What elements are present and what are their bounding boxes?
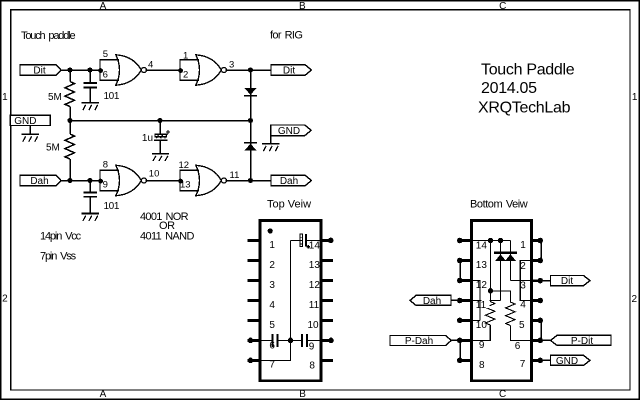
gate U1D output bubble	[221, 178, 226, 183]
pin 7 bottom view	[533, 359, 542, 362]
svg-text:C: C	[499, 389, 506, 400]
svg-text:7pin Vss: 7pin Vss	[40, 251, 77, 263]
svg-text:14pin Vcc: 14pin Vcc	[40, 231, 82, 243]
svg-text:P-Dit: P-Dit	[571, 336, 593, 347]
svg-text:101: 101	[104, 91, 120, 102]
pin 10 bottom view	[458, 319, 471, 322]
svg-text:6: 6	[269, 340, 275, 351]
capacitor C1 101 plates	[84, 82, 97, 88]
svg-text:C: C	[499, 1, 506, 12]
svg-text:2: 2	[2, 293, 8, 304]
wire top view cap to pin 9	[308, 339, 322, 341]
node pin 13 bottom view	[457, 258, 463, 264]
diode D2	[244, 142, 257, 151]
svg-text:4: 4	[148, 59, 153, 70]
svg-text:11: 11	[476, 300, 487, 311]
svg-text:8: 8	[479, 360, 485, 371]
node pin 14 bottom view	[457, 238, 463, 244]
pin 6 bottom view	[533, 339, 542, 342]
diode left bottom view	[495, 254, 506, 261]
svg-text:Top Veiw: Top Veiw	[267, 199, 311, 211]
node rail-C3 junction	[157, 118, 162, 123]
svg-text:12: 12	[179, 160, 190, 171]
gate U1A NOR body	[116, 55, 142, 85]
connector Dah bottom view	[410, 295, 451, 307]
svg-text:Touch Paddle: Touch Paddle	[481, 62, 575, 79]
capacitor C3 1u polarized plates	[154, 134, 167, 142]
svg-text:GND: GND	[556, 356, 578, 367]
wire Dah input to gate U1C	[61, 180, 100, 182]
wire bridge pins 1-2 bottom view	[540, 241, 542, 261]
wire P-Dah flag to pin 9	[451, 339, 457, 341]
pin 2 bottom view	[533, 259, 542, 262]
wire pin 2 interior stub	[527, 260, 532, 262]
wire pin 12 interior	[472, 281, 481, 321]
label plus for C3	[166, 130, 170, 134]
node U1D input junction	[178, 179, 183, 184]
wire diode left vertical	[500, 241, 502, 301]
svg-text:4011 NAND: 4011 NAND	[140, 231, 194, 243]
node Dah out diode junction	[248, 178, 253, 183]
ground below C3	[152, 153, 169, 161]
pin 3 top view	[248, 279, 260, 282]
gate U1A output bubble	[141, 68, 146, 73]
wire U1B output to Dit out	[226, 69, 271, 71]
ground below GND output	[262, 143, 279, 151]
capacitor C1 101 lower lead	[89, 88, 91, 102]
connector Dah input	[20, 175, 61, 187]
connector GND bottom view	[551, 355, 591, 367]
wire GND input stub	[29, 125, 31, 133]
pin 2 top view	[248, 259, 260, 262]
wire U1D output to Dah out	[226, 180, 271, 182]
resistor R1 5M	[65, 82, 74, 107]
svg-text:8: 8	[309, 360, 315, 371]
pin 12 bottom view	[458, 279, 471, 282]
svg-text:2: 2	[520, 261, 526, 272]
wire top view pin 7 to middle node	[259, 340, 291, 360]
svg-text:B: B	[299, 1, 306, 12]
wire left resistor to pin 9	[472, 325, 491, 340]
svg-text:1: 1	[632, 92, 638, 103]
wire U1A output to U1B	[146, 69, 180, 71]
svg-text:Dit: Dit	[283, 66, 295, 77]
pin 4 bottom view	[533, 299, 542, 302]
svg-text:4: 4	[520, 300, 526, 311]
svg-text:13: 13	[180, 180, 191, 191]
connector P-Dah bottom view	[390, 336, 451, 348]
svg-text:12: 12	[476, 280, 488, 291]
svg-text:Dah: Dah	[423, 296, 441, 307]
gate U1D NOR input box	[180, 170, 199, 190]
resistor R2 5M lower lead	[69, 159, 71, 181]
pin 10 top view	[322, 319, 333, 322]
pin number 11 bottom view	[476, 298, 490, 311]
resistor R2 5M upper lead	[69, 121, 71, 135]
pin 5 top view	[248, 319, 260, 322]
pin 14 top view	[322, 239, 333, 242]
node pin 3 bottom view	[537, 278, 543, 284]
wire Vcc to right resistor	[491, 291, 511, 302]
diode D2 wire	[250, 121, 252, 181]
pin 12 top view	[322, 279, 333, 282]
wire pin 4 interior stub	[527, 299, 532, 301]
pin 5 bottom view	[533, 319, 542, 322]
svg-text:2: 2	[269, 260, 275, 271]
node Vcc left junction	[488, 238, 493, 243]
Vcc rail wire	[70, 120, 251, 122]
node pin 9 top view	[328, 338, 334, 344]
pin 1 bottom view	[533, 239, 542, 242]
svg-text:14: 14	[476, 241, 488, 252]
wire top view vertical to middle node	[290, 241, 292, 341]
svg-text:P-Dah: P-Dah	[405, 336, 433, 347]
node pin 9 bottom view	[457, 338, 463, 344]
wire diode right vertical	[510, 241, 512, 281]
ground below GND input	[22, 133, 39, 141]
svg-text:A: A	[100, 389, 107, 400]
pin 11 top view	[322, 299, 333, 302]
svg-text:1u: 1u	[142, 133, 153, 144]
gate U1A NOR input box	[100, 60, 119, 80]
node pin 2 bottom view	[537, 258, 543, 264]
node top view middle junction	[288, 338, 294, 344]
IC U1 top view pin1 marker	[268, 228, 273, 233]
svg-text:4: 4	[269, 300, 275, 311]
label plus for 1u top view	[306, 245, 310, 249]
wire Dit input to gate U1A	[61, 69, 100, 71]
svg-text:8: 8	[103, 160, 108, 171]
wire bridge pins 5-6 bottom view	[540, 320, 542, 340]
wire GND output stub	[270, 136, 272, 143]
node pin 14 top view	[328, 238, 334, 244]
pin 13 bottom view	[458, 259, 471, 262]
resistor R2 5M	[65, 134, 74, 159]
IC U1 top view body	[260, 221, 321, 381]
ground below C2	[82, 213, 99, 221]
capacitor 101 top view left	[272, 334, 279, 347]
svg-text:3: 3	[269, 280, 275, 291]
svg-text:11: 11	[230, 170, 240, 181]
node Dit out diode junction	[248, 67, 253, 72]
node pin 1 bottom view	[537, 238, 543, 244]
pin 4 top view	[248, 299, 260, 302]
svg-text:5M: 5M	[48, 92, 62, 103]
pin 9 bottom view	[458, 339, 471, 342]
wire pin 3 to Dit flag	[540, 280, 550, 282]
svg-text:5M: 5M	[46, 142, 60, 153]
node pin 7 bottom view	[537, 358, 543, 364]
svg-text:7: 7	[269, 360, 275, 371]
svg-text:Touch paddle: Touch paddle	[21, 30, 75, 42]
svg-text:6: 6	[515, 341, 521, 352]
capacitor C2 101 plates	[84, 192, 97, 198]
node pin 4 bottom view	[537, 298, 543, 304]
node Dah-R2 junction	[67, 178, 72, 183]
wire top view pin 6 to cap	[259, 339, 272, 341]
svg-text:2: 2	[632, 294, 638, 305]
wire pin 3 interior to diode	[511, 280, 533, 282]
connector GND input	[10, 115, 50, 127]
svg-text:14: 14	[309, 240, 321, 251]
resistor 5M left bottom view	[486, 302, 495, 326]
ground below C1	[82, 102, 99, 110]
node pin 12 bottom view	[457, 278, 463, 284]
svg-text:GND: GND	[14, 116, 36, 127]
pin 14 bottom view	[458, 239, 471, 242]
node U1C input junction	[98, 179, 103, 184]
node pin 6 bottom view	[537, 338, 543, 344]
diode D1 wire	[250, 70, 252, 121]
node pin 10 bottom view	[457, 318, 463, 324]
gate U1B NOR input box	[180, 60, 199, 80]
connector Dit output	[271, 65, 311, 77]
capacitor C3 1u lower lead	[159, 141, 161, 153]
gate U1C NOR input box	[100, 170, 119, 190]
svg-text:Dah: Dah	[280, 176, 298, 187]
svg-text:XRQTechLab: XRQTechLab	[478, 100, 571, 117]
node pin 11 bottom view	[457, 298, 463, 304]
svg-text:13: 13	[309, 260, 321, 271]
node pin 7 top view	[248, 358, 254, 364]
node pin 5 bottom view	[537, 318, 543, 324]
wire pin 10 interior	[472, 319, 481, 321]
svg-text:1: 1	[269, 240, 275, 251]
svg-text:5: 5	[269, 320, 275, 331]
pin 9 top view	[322, 339, 333, 342]
svg-text:9: 9	[103, 180, 108, 191]
diode right bottom view	[505, 254, 516, 261]
svg-text:GND: GND	[278, 126, 300, 137]
wire bridge pins 9-8 bottom view	[459, 340, 461, 360]
capacitor C2 101 upper lead	[89, 181, 91, 192]
svg-text:3: 3	[229, 59, 234, 70]
node Dit-R1 junction	[67, 67, 72, 72]
wire Dah flag to pin 11	[451, 299, 458, 301]
svg-text:10: 10	[476, 320, 488, 331]
svg-text:Bottom Veiw: Bottom Veiw	[470, 198, 528, 210]
connector GND output	[271, 125, 311, 137]
capacitor C1 101 upper lead	[89, 70, 91, 82]
wire top view cap to pin 14	[307, 240, 322, 242]
wire top view middle node to cap right	[291, 339, 302, 341]
diode pair common cathode bar bottom view	[494, 252, 517, 255]
capacitor C2 101 lower lead	[89, 198, 91, 213]
svg-text:7: 7	[520, 359, 526, 370]
svg-text:Dit: Dit	[561, 276, 573, 287]
node U1A input junction	[98, 68, 103, 73]
svg-text:11: 11	[309, 300, 320, 311]
gate U1C output bubble	[141, 178, 146, 183]
svg-text:3: 3	[520, 281, 526, 292]
pin 13 top view	[322, 259, 333, 262]
capacitor C3 1u upper lead	[159, 121, 161, 135]
wire pin 6 to P-Dit flag	[540, 339, 551, 341]
pin 6 top view	[248, 339, 260, 342]
svg-text:10: 10	[149, 168, 160, 179]
node Dit-C1 junction	[87, 67, 92, 72]
wire U1C output to U1D	[146, 180, 180, 182]
wire Vcc down vertical	[490, 241, 492, 302]
svg-text:Dit: Dit	[33, 66, 45, 77]
pin 7 top view	[248, 359, 260, 362]
wire right resistor to pin 6	[510, 326, 532, 341]
svg-text:9: 9	[309, 341, 315, 352]
svg-text:5: 5	[519, 320, 525, 331]
capacitor 1u top view	[300, 234, 307, 247]
wire bridge pins 13-12 bottom view	[459, 261, 461, 281]
wire bracket pin 2 to pin 4 interior	[520, 261, 527, 301]
node rail-diodes junction	[248, 118, 253, 123]
pin 1 top view	[248, 239, 260, 242]
gate U1B NOR body	[196, 55, 222, 85]
svg-text:2014.05: 2014.05	[481, 80, 537, 97]
svg-text:5: 5	[103, 49, 108, 60]
gate U1D NOR body	[196, 165, 222, 195]
connector Dah output	[271, 175, 311, 187]
svg-text:2: 2	[183, 69, 188, 80]
wire Vcc pin 14 interior	[472, 240, 511, 242]
svg-text:B: B	[299, 389, 306, 400]
IC U1 bottom view body	[472, 221, 532, 381]
resistor R1 5M lower lead	[69, 107, 71, 121]
svg-text:Dah: Dah	[30, 176, 48, 187]
capacitor 101 top view right	[301, 334, 308, 347]
node Vcc resistor junction	[488, 288, 493, 293]
wire pin 11 interior to diode	[472, 300, 501, 302]
node pin 8 bottom view	[457, 358, 463, 364]
wire top view Vcc to cap	[291, 240, 301, 242]
svg-text:for RIG: for RIG	[270, 30, 302, 42]
connector Dit input	[20, 65, 61, 77]
svg-text:101: 101	[104, 201, 120, 212]
node Vcc right junction	[498, 238, 503, 243]
svg-text:10: 10	[308, 320, 320, 331]
connector Dit bottom view	[551, 276, 591, 288]
svg-text:13: 13	[476, 260, 488, 271]
svg-text:6: 6	[103, 69, 108, 80]
node pin 6 top view	[248, 338, 254, 344]
svg-text:12: 12	[309, 280, 321, 291]
gate U1C NOR body	[116, 165, 142, 195]
svg-text:1: 1	[520, 240, 526, 251]
svg-text:A: A	[100, 1, 107, 12]
svg-text:9: 9	[479, 340, 485, 351]
diode D1	[244, 88, 257, 97]
pin 8 bottom view	[458, 359, 471, 362]
wire pin 7 to GND flag	[540, 359, 550, 361]
resistor 5M right bottom view	[506, 302, 515, 326]
pin 8 top view	[322, 359, 333, 362]
wire top view cap to middle node	[278, 339, 290, 341]
connector P-Dit bottom view	[551, 335, 612, 347]
svg-text:1: 1	[183, 51, 188, 62]
svg-text:1: 1	[2, 92, 8, 103]
node U1B input junction	[178, 68, 183, 73]
pin 3 bottom view	[533, 279, 542, 282]
node R1-R2-rail junction	[67, 118, 72, 123]
pin 11 bottom view	[458, 299, 471, 302]
gate U1B output bubble	[221, 68, 226, 73]
node Dah-C2 junction	[87, 178, 92, 183]
resistor R1 5M upper lead	[69, 70, 71, 82]
